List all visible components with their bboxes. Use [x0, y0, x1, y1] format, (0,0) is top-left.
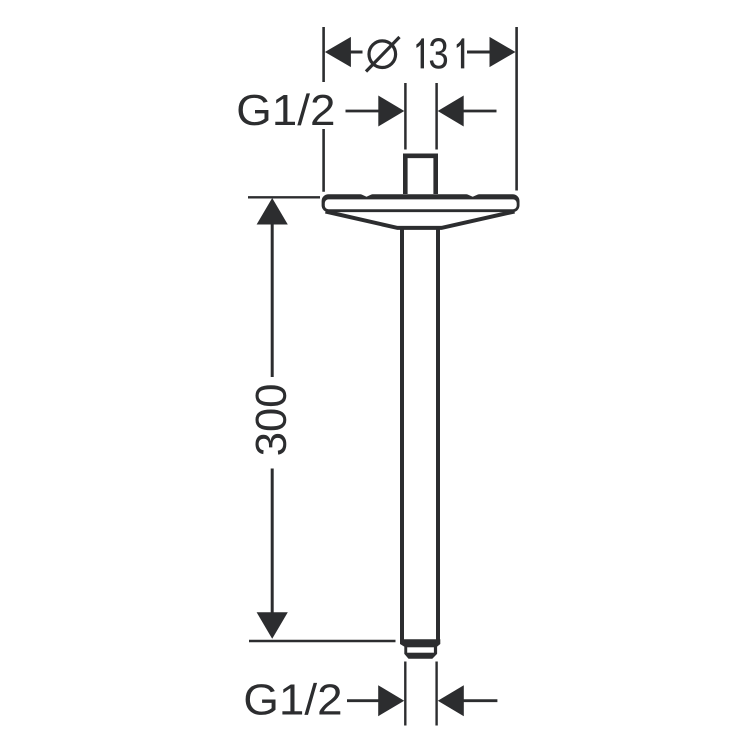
- dim D (G1/2 bottom): left-pointing arrow: [438, 685, 464, 716]
- dim B (G1/2 top): right extension line: [435, 83, 438, 150]
- dim C (300): dimension line segments: [271, 224, 274, 613]
- dim A (diameter 131): diameter symbol: [366, 37, 400, 72]
- dim B (G1/2 top): right-pointing arrow: [378, 96, 404, 127]
- shower arm: bottom connector nut: [400, 639, 440, 659]
- dim A (diameter 131): dimension line segments: [349, 51, 490, 54]
- dim A (diameter 131): right extension line: [515, 27, 518, 191]
- dim C (300): top reference line: [248, 196, 320, 198]
- dim A (diameter 131): left arrow: [325, 37, 351, 67]
- dim C (300): bottom reference line: [249, 640, 396, 642]
- dim B (G1/2 top): label G1/2: [239, 93, 334, 125]
- shower arm: bottom connector slot: [407, 647, 434, 652]
- dim B (G1/2 top): left-pointing arrow: [438, 96, 464, 127]
- dim D (G1/2 bottom): left extension line: [404, 662, 406, 726]
- dim D (G1/2 bottom): tail line: [463, 699, 497, 702]
- dim B (G1/2 top): left extension line: [404, 83, 407, 150]
- shower arm: ceiling escutcheon plate outer: [322, 194, 520, 212]
- dim D (G1/2 bottom): right-pointing arrow: [378, 685, 404, 716]
- shower arm: vertical pipe right wall: [436, 228, 440, 640]
- dim C (300): up arrow: [257, 198, 288, 225]
- dim D (G1/2 bottom): leader line: [347, 699, 381, 702]
- dim B (G1/2 top): leader line: [346, 110, 380, 113]
- dim B (G1/2 top): tail line: [464, 110, 497, 113]
- dim A (diameter 131): value label 131: [416, 38, 464, 69]
- dim A (diameter 131): left extension line: [322, 27, 325, 192]
- dim D (G1/2 bottom): label G1/2: [246, 683, 341, 715]
- dim A (diameter 131): right arrow: [490, 37, 516, 67]
- shower arm: escutcheon top notch left: [361, 194, 373, 197]
- dim C (300): down arrow: [257, 612, 288, 639]
- dim C (300): value label 300 rotated: [256, 385, 287, 454]
- shower arm: ceiling escutcheon plate inner face: [325, 199, 517, 209]
- shower arm: escutcheon top notch right: [467, 194, 480, 197]
- shower arm: top connection stub: [405, 156, 435, 194]
- shower arm: vertical pipe left wall: [400, 228, 404, 640]
- shower arm: tapered cover below plate: [326, 212, 515, 228]
- dim D (G1/2 bottom): right extension line: [435, 662, 437, 726]
